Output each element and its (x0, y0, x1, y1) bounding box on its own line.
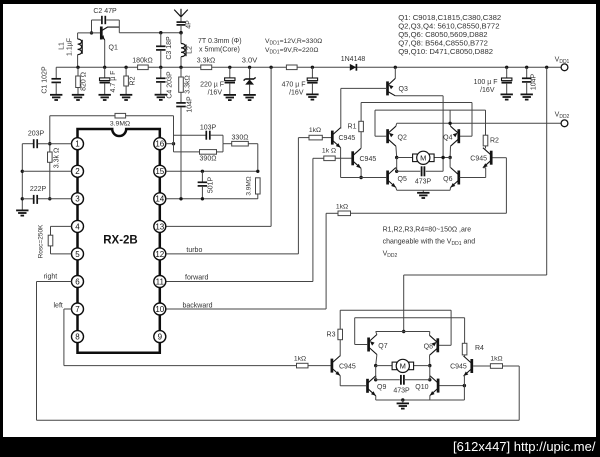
wire pin16 (166, 143, 174, 145)
svg-text:4.7 µ F: 4.7 µ F (110, 71, 117, 93)
node Q3 emitter on rail (394, 66, 397, 69)
capacitor 103P parallel branch (174, 125, 224, 144)
wire bottom bridge rail (376, 331, 430, 333)
wire Q10 emitter to bus (429, 396, 431, 400)
motor M bottom (376, 359, 430, 372)
wire Q7 emitter to rail (376, 332, 377, 335)
svg-text:3.0V: 3.0V (242, 56, 257, 65)
label forward (185, 275, 208, 282)
wire Q8 collector (428, 355, 431, 367)
svg-text:1: 1 (75, 140, 80, 149)
wire VDD1 to lower bridge (404, 66, 549, 332)
svg-text:Q8: Q8 (424, 344, 433, 351)
wire bl driver collector to R3 (339, 340, 341, 357)
svg-text:Q6: Q6 (443, 176, 452, 183)
resistor R on rail (286, 65, 297, 70)
wire left driver emitter / Q5 base (341, 168, 387, 179)
resistor 1k forward (313, 148, 352, 161)
wire stub rail (449, 110, 451, 123)
resistor 1k bottom left (294, 356, 331, 368)
wire left ground column (21, 144, 23, 211)
wire pin7 left (64, 309, 297, 366)
wire Q5 emitter to bus (395, 188, 398, 191)
zener diode 3.0V (244, 66, 256, 95)
terminal VDD1 (555, 57, 570, 71)
svg-text:R1,R2,R3,R4=80~150Ω ,are: R1,R2,R3,R4=80~150Ω ,are (383, 227, 472, 234)
resistor 3.3k left column (48, 116, 61, 199)
transistor Q10 (415, 376, 438, 396)
transistor Q8 (424, 335, 438, 355)
svg-text:/16V: /16V (480, 87, 495, 94)
svg-text:4P: 4P (186, 20, 193, 29)
svg-text:C2 47P: C2 47P (93, 8, 117, 15)
node bottom bridge feed (402, 330, 405, 333)
wire pin6 right long (37, 282, 520, 421)
svg-text:11: 11 (156, 277, 165, 286)
svg-text:Q1: Q1 (109, 45, 118, 52)
resistor 3.3k on rail (197, 58, 215, 70)
wire C945 emitter down (340, 148, 342, 178)
svg-text:Q9: Q9 (377, 384, 386, 391)
transistor Q6 (443, 168, 459, 188)
svg-text:330Ω: 330Ω (232, 135, 249, 142)
capacitor 104P (176, 92, 193, 199)
svg-text:12: 12 (155, 250, 164, 259)
wire bridge bottom bus (397, 190, 450, 193)
node pin2 left (21, 170, 24, 173)
wire Q2 emitter to rail (395, 123, 398, 126)
watermark upic.me (453, 440, 596, 454)
node Q3 feed at motor (441, 156, 444, 159)
svg-text:x 5mm(Core): x 5mm(Core) (199, 47, 240, 54)
svg-text:Q7: Q7 (378, 343, 387, 350)
wire loop R3 to Q8 base (340, 310, 451, 345)
wire Q2 collector to motor (395, 146, 398, 159)
label left (54, 302, 63, 309)
svg-text:Q3: Q3 (399, 86, 408, 93)
svg-text:C3 18P: C3 18P (166, 36, 173, 60)
ground under 470uF (306, 94, 318, 99)
wire Q1 base (78, 32, 101, 34)
svg-text:7T 0.3mm (Φ): 7T 0.3mm (Φ) (198, 38, 242, 45)
wire bl driver emitter to Q9 base (340, 376, 366, 386)
pin 2 (72, 165, 84, 177)
label transistor list (398, 13, 501, 56)
node pin3 (48, 197, 51, 200)
pin 3 (72, 193, 84, 205)
svg-text:1kΩ: 1kΩ (490, 356, 502, 363)
transistor Q5 (388, 168, 407, 188)
pin 15 (154, 165, 166, 177)
svg-text:R1: R1 (348, 124, 357, 131)
node L1/820 on rail (76, 66, 79, 69)
ground left column (16, 210, 28, 215)
wire pin14 (166, 197, 258, 200)
svg-text:backward: backward (183, 302, 213, 309)
svg-text:L2: L2 (187, 46, 194, 54)
transistor Q7 (369, 335, 388, 355)
svg-text:16: 16 (155, 140, 164, 149)
node L2 bottom (179, 66, 182, 69)
wire Q3 base (341, 88, 387, 128)
capacitor 4P (177, 20, 193, 33)
svg-text:C1 102P: C1 102P (42, 66, 49, 94)
svg-text:C945: C945 (450, 364, 467, 371)
wire Q6 collector riser (449, 158, 451, 168)
ground under 100uF (501, 94, 513, 99)
svg-text:Rosc=250K: Rosc=250K (38, 224, 45, 258)
svg-text:C4 203P: C4 203P (167, 71, 174, 99)
svg-text:/16V: /16V (208, 90, 223, 97)
transistor Q9 (368, 376, 387, 396)
svg-text:470 µ F: 470 µ F (282, 82, 306, 89)
wire Q8 emitter to rail (429, 332, 431, 336)
svg-text:6: 6 (75, 277, 80, 286)
svg-text:left: left (54, 302, 63, 309)
resistor 390 parallel branch (174, 144, 224, 163)
capacitor 100uF (474, 66, 512, 95)
pin 11 (154, 276, 166, 288)
ground under 4.7uF (99, 95, 111, 100)
resistor 3.9M vertical (246, 176, 261, 199)
wire Q1 emitter (103, 40, 106, 69)
wire rail to pin 13 (166, 67, 271, 226)
diode 1N4148 (341, 56, 366, 71)
wire pin12 turbo to 1k (166, 138, 299, 254)
wire loop Q2 base to R2 (375, 110, 486, 136)
ground under R2 (120, 95, 132, 100)
capacitor 501P (198, 171, 215, 199)
svg-text:104P: 104P (531, 74, 538, 91)
svg-text:1kΩ: 1kΩ (294, 356, 306, 363)
svg-text:4: 4 (75, 222, 80, 231)
inductor L2 (179, 31, 193, 67)
wire Q3 collector (395, 96, 443, 172)
wire VDD2 rail (397, 122, 562, 124)
inductor L1 (59, 33, 83, 67)
capacitor 470uF (282, 66, 318, 97)
capacitor 104P right (522, 66, 538, 95)
svg-text:R2: R2 (130, 76, 137, 85)
ground under 220uF (224, 95, 236, 100)
svg-text:1.1µF: 1.1µF (67, 38, 74, 56)
ground top bridge (417, 193, 429, 198)
svg-text:RX-2B: RX-2B (103, 235, 138, 247)
ground bottom bridge (397, 403, 409, 408)
wire Q1 collector to C2/C3 (119, 20, 161, 33)
wire right driver base riser (493, 158, 507, 214)
label turbo (186, 247, 202, 254)
svg-text:Q2: Q2 (398, 135, 407, 142)
resistor R3 (327, 329, 343, 340)
svg-text:820 Ω: 820 Ω (81, 72, 88, 91)
wire main supply rail y=67.3 (56, 66, 561, 68)
svg-text:3.3kΩ: 3.3kΩ (185, 75, 192, 93)
svg-text:13: 13 (155, 222, 164, 231)
svg-text:Q5: Q5 (398, 176, 407, 183)
svg-text:473P: 473P (415, 179, 432, 186)
pin 1 (72, 138, 84, 150)
resistor 1k upper (turbo) (298, 127, 331, 140)
wire bottom bus (376, 398, 465, 403)
wire Q6 base (460, 177, 486, 179)
capacitor 4.7uF (100, 67, 118, 95)
transistor C945 bottom left (332, 356, 356, 376)
wire pin15 (166, 170, 260, 173)
wire antenna to C3 (161, 32, 181, 34)
resistor 820 ohm (76, 67, 88, 95)
wire right driver collector to R2 (485, 146, 487, 149)
ground under C4 (155, 95, 167, 100)
node C2/base (90, 31, 93, 34)
svg-text:1kΩ: 1kΩ (309, 127, 321, 134)
capacitor 220uF (200, 66, 235, 97)
wire Q9 collector riser (374, 366, 377, 382)
svg-text:3.9MΩ: 3.9MΩ (246, 176, 253, 195)
transistor Q4 (443, 126, 459, 146)
node C3 bottom (159, 66, 162, 69)
ground under 820 (72, 95, 84, 100)
pin 12 (154, 248, 166, 260)
resistor 180k (132, 58, 152, 70)
motor M top (397, 151, 450, 164)
capacitor 203P (22, 131, 71, 149)
pin 13 (154, 220, 166, 232)
resistor 1k backward (326, 204, 506, 216)
svg-text:L1: L1 (59, 42, 66, 50)
node pin1 (48, 142, 51, 145)
svg-text:220 µ F: 220 µ F (200, 82, 224, 89)
capacitor C4 203P (156, 67, 173, 98)
capacitor 222P (21, 186, 72, 204)
svg-text:M: M (400, 362, 406, 371)
resistor R2 (124, 66, 137, 95)
resistor R2 (483, 135, 499, 146)
resistor 330 (223, 135, 258, 172)
label R1-R4 note (383, 227, 476, 260)
svg-text:15: 15 (155, 167, 164, 176)
svg-text:203P: 203P (28, 131, 45, 138)
svg-text:7: 7 (75, 305, 80, 314)
resistor 1k bottom right (473, 356, 519, 369)
pin 8 (72, 331, 84, 343)
svg-text:8: 8 (75, 333, 80, 342)
svg-text:[612x447] http://upic.me/: [612x447] http://upic.me/ (453, 440, 596, 454)
svg-text:222P: 222P (30, 186, 47, 193)
wire Q10 base (439, 384, 466, 387)
svg-text:180kΩ: 180kΩ (132, 58, 152, 65)
svg-text:C945: C945 (470, 155, 487, 162)
capacitor C2 47P (92, 8, 120, 33)
svg-text:5: 5 (75, 250, 80, 259)
wire br driver emitter to bus (463, 376, 466, 400)
svg-text:forward: forward (185, 275, 208, 282)
svg-text:Q4: Q4 (443, 135, 452, 142)
svg-text:Q10: Q10 (415, 384, 428, 391)
transistor C945 right driver (470, 148, 491, 168)
pin 16 (154, 138, 166, 150)
pin 6 (72, 276, 84, 288)
terminal VDD2 (555, 112, 570, 127)
wire left driver collector to R1 (360, 132, 362, 149)
antenna (174, 9, 188, 22)
resistor Rosc 250K (38, 224, 72, 258)
label R values note (265, 38, 322, 56)
resistor R4 (462, 343, 484, 355)
capacitor 473P top (397, 166, 443, 185)
ground under C1 (50, 95, 62, 100)
label right (44, 274, 58, 281)
svg-text:1k Ω: 1k Ω (322, 148, 336, 155)
wire Q4 emitter to rail (448, 122, 451, 127)
pin 10 (154, 303, 166, 315)
IC RX-2B body (78, 129, 160, 353)
transistor Q3 (388, 67, 408, 96)
label L2 winding (198, 38, 242, 54)
transistor Q1 (100, 27, 119, 52)
svg-text:C945: C945 (339, 135, 356, 142)
svg-text:right: right (44, 274, 58, 281)
svg-text:R2: R2 (490, 138, 499, 145)
node pin13 riser (269, 66, 272, 69)
svg-text:3.3kΩ: 3.3kΩ (197, 58, 215, 65)
svg-text:9: 9 (158, 333, 163, 342)
svg-text:473P: 473P (393, 388, 410, 395)
pin 7 (72, 303, 84, 315)
node pin16 junction (172, 142, 175, 145)
svg-text:R4: R4 (475, 345, 484, 352)
svg-text:M: M (420, 154, 426, 163)
pin 14 (154, 193, 166, 205)
wire pin10 backward riser (166, 213, 326, 309)
wire loop Q7 base to R4 (355, 318, 465, 345)
wire Q5 collector riser (395, 158, 398, 174)
svg-text:Q9,Q10: D471,C8050,D882: Q9,Q10: D471,C8050,D882 (398, 47, 493, 56)
label backward (183, 302, 213, 309)
wire Q7 collector (374, 355, 377, 368)
svg-text:3.9MΩ: 3.9MΩ (110, 121, 130, 128)
svg-text:10: 10 (155, 305, 164, 314)
transistor C945 bottom right (450, 356, 472, 376)
wire Q4 collector to motor (448, 146, 451, 159)
wire pin11 forward to 1k (166, 158, 313, 281)
svg-text:103P: 103P (200, 125, 217, 132)
capacitor C3 18P (156, 31, 173, 67)
node antenna (179, 31, 182, 34)
pin 4 (72, 220, 84, 232)
svg-text:390Ω: 390Ω (200, 156, 217, 163)
svg-text:C945: C945 (339, 363, 356, 370)
pin 5 (72, 248, 84, 260)
ground under zener (243, 95, 255, 100)
svg-text:14: 14 (155, 195, 164, 204)
wire right driver emitter to Q6 base (483, 168, 486, 178)
svg-text:C945: C945 (360, 156, 377, 163)
transistor C945 turbo driver (332, 128, 355, 148)
resistor R1 (348, 121, 364, 131)
svg-text:R3: R3 (327, 332, 336, 339)
pin 9 (154, 331, 166, 343)
svg-text:turbo: turbo (186, 247, 202, 254)
svg-text:3.3k Ω: 3.3k Ω (54, 148, 61, 168)
wire pin2 (22, 170, 71, 172)
svg-text:1N4148: 1N4148 (341, 56, 366, 63)
transistor Q2 (388, 126, 407, 146)
ground under 104P (521, 94, 533, 99)
resistor 3.9M feedback (50, 113, 174, 143)
capacitor 473P bottom (376, 375, 430, 395)
wire loop R1 to Q4 base (361, 103, 472, 137)
svg-text:100 µ F: 100 µ F (474, 79, 498, 86)
svg-text:1kΩ: 1kΩ (336, 204, 348, 211)
wire Q9 emitter to bus (375, 396, 377, 400)
wire Q6 emitter to bus (449, 188, 451, 191)
resistor 3.3k vertical (179, 67, 192, 93)
svg-text:501P: 501P (208, 177, 215, 194)
label 3.0V (242, 56, 257, 65)
wire br driver collector to R4 (464, 355, 466, 357)
svg-text:2: 2 (75, 167, 80, 176)
svg-text:/16V: /16V (289, 90, 304, 97)
svg-text:104P: 104P (187, 96, 194, 113)
svg-text:3: 3 (75, 195, 80, 204)
capacitor C1 102P (42, 66, 61, 95)
transistor C945 left driver (353, 148, 377, 168)
wire Q10 collector riser (428, 366, 431, 382)
